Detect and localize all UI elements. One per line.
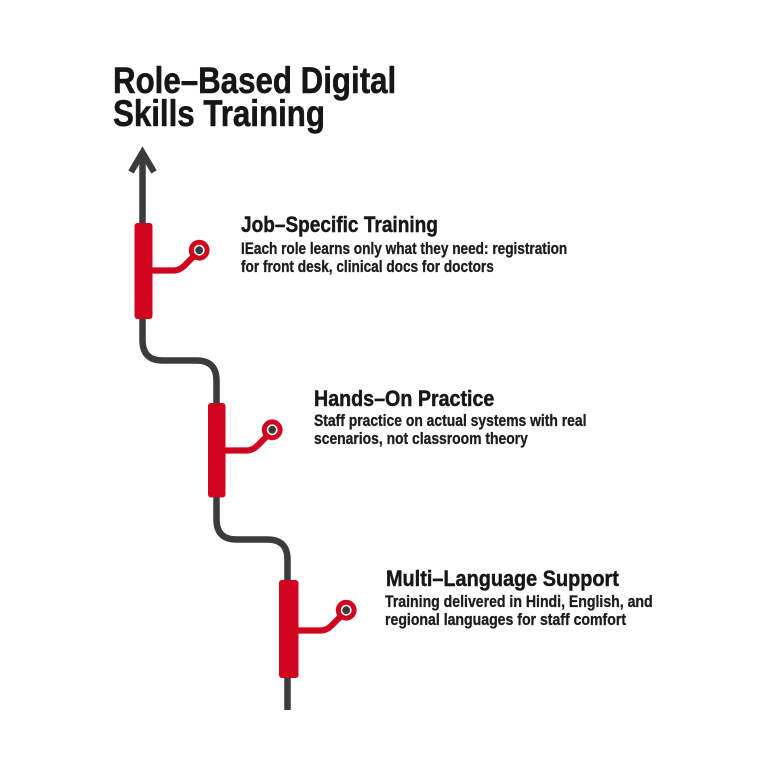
arrow head	[131, 153, 154, 173]
title	[113, 64, 396, 131]
node ring 1	[191, 242, 207, 258]
bar 1	[135, 223, 153, 319]
wire main line	[143, 154, 288, 710]
section 3 heading	[386, 568, 619, 590]
section 3 body	[385, 593, 653, 629]
section 2 body	[314, 412, 586, 448]
connector 2	[224, 436, 267, 450]
node ring 3	[338, 602, 354, 618]
connector 3	[297, 616, 341, 630]
connector 1	[151, 256, 194, 270]
node dot 3	[342, 606, 350, 614]
section 1 heading	[241, 214, 438, 236]
bar 3	[279, 580, 299, 678]
node dot 2	[268, 426, 276, 434]
node dot 1	[195, 246, 203, 254]
section 2 heading	[314, 388, 494, 410]
bar 2	[208, 403, 226, 498]
node ring 2	[264, 422, 280, 438]
section 1 body	[241, 240, 567, 276]
